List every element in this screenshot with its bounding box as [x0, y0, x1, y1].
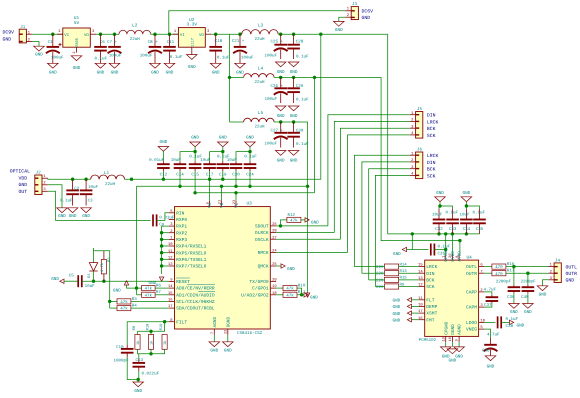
connector J4	[554, 263, 561, 283]
svg-text:GND: GND	[166, 70, 174, 75]
IC U3 CS8416	[175, 207, 271, 329]
svg-text:10uF: 10uF	[85, 284, 96, 289]
capacitor C33	[452, 209, 454, 220]
svg-text:GND: GND	[219, 136, 227, 141]
svg-text:GND: GND	[51, 277, 59, 282]
svg-text:15: 15	[418, 263, 423, 268]
wire VL pin feed	[235, 193, 237, 201]
capacitor C31	[411, 234, 413, 250]
svg-text:22: 22	[223, 330, 228, 334]
wire	[249, 171, 251, 186]
wire	[297, 288, 302, 295]
svg-text:GND: GND	[151, 70, 159, 75]
wire	[162, 252, 169, 254]
resistor R4	[110, 307, 117, 309]
svg-text:GND: GND	[82, 214, 90, 219]
svg-text:GND: GND	[188, 65, 196, 70]
wire to J6 pin4	[375, 175, 409, 286]
wire	[155, 287, 169, 289]
svg-text:0.1uF: 0.1uF	[446, 210, 459, 215]
svg-text:0.1uF: 0.1uF	[217, 56, 230, 61]
svg-text:16: 16	[418, 316, 423, 321]
wire RESET line	[82, 280, 169, 282]
svg-text:22uH: 22uH	[254, 125, 265, 130]
resistor R9	[385, 284, 399, 289]
wire VL rail	[195, 192, 314, 194]
resistor R7	[137, 294, 142, 296]
node	[279, 120, 282, 123]
wire OLRCK	[276, 232, 334, 234]
pin RXP3	[169, 238, 175, 240]
svg-text:1000pF: 1000pF	[114, 358, 130, 363]
svg-text:J5: J5	[417, 107, 423, 112]
wire to J5 pin2	[334, 121, 410, 232]
wire	[194, 171, 196, 193]
svg-text:22uH: 22uH	[130, 37, 141, 42]
wire	[506, 272, 548, 274]
ground	[412, 312, 419, 314]
svg-text:15: 15	[168, 291, 173, 296]
wire tie	[466, 206, 479, 209]
svg-text:3.3V: 3.3V	[187, 23, 198, 28]
ground	[412, 305, 419, 307]
svg-text:J6: J6	[417, 148, 423, 153]
node	[71, 178, 74, 181]
inductor L1	[91, 175, 125, 179]
pin RIN	[169, 212, 175, 214]
pin DGND	[451, 336, 453, 342]
svg-text:U3: U3	[247, 202, 253, 207]
capacitor C34	[465, 209, 467, 220]
svg-text:SDOUT: SDOUT	[255, 224, 269, 230]
svg-text:10: 10	[168, 242, 173, 247]
svg-text:GND: GND	[236, 70, 244, 75]
svg-text:14: 14	[168, 284, 173, 289]
wire	[162, 258, 169, 260]
resistor R18	[150, 331, 152, 334]
svg-text:R19: R19	[159, 323, 164, 331]
svg-text:RXP6/TXSEL1: RXP6/TXSEL1	[176, 257, 207, 263]
wire	[32, 42, 39, 47]
svg-text:GND: GND	[19, 182, 28, 188]
wire OUTR	[484, 272, 492, 274]
wire to J5 pin4	[348, 135, 410, 253]
ground	[435, 197, 446, 202]
regulator U1	[63, 28, 91, 47]
ground	[213, 335, 215, 342]
svg-text:C33: C33	[449, 227, 457, 232]
svg-text:OUTL: OUTL	[566, 265, 578, 271]
wire to J5 pin3	[340, 128, 409, 239]
svg-text:C9: C9	[159, 222, 165, 227]
svg-text:C1: C1	[48, 40, 54, 45]
svg-text:LDOO: LDOO	[466, 320, 477, 326]
IC U4 PCM5102	[425, 260, 479, 336]
wire	[222, 171, 224, 179]
svg-text:GND: GND	[463, 191, 471, 196]
svg-text:GND: GND	[393, 305, 401, 310]
wire to J6 pin2	[362, 162, 410, 273]
pin VNEG	[479, 328, 485, 330]
node	[313, 76, 316, 79]
node	[51, 33, 54, 36]
node	[221, 178, 224, 181]
svg-text:DIN: DIN	[427, 160, 436, 166]
svg-text:FMT: FMT	[426, 317, 435, 323]
svg-text:10: 10	[418, 303, 423, 308]
svg-text:BCK: BCK	[427, 126, 436, 132]
svg-text:OUT: OUT	[19, 189, 28, 195]
inductor L3	[242, 30, 279, 35]
svg-text:RMCK: RMCK	[258, 250, 269, 256]
svg-text:0.1uF: 0.1uF	[170, 55, 183, 60]
svg-text:GND: GND	[58, 214, 66, 219]
resistor R11	[276, 294, 283, 296]
svg-text:CPGND: CPGND	[444, 321, 449, 335]
pin RXP5/RXSEL0	[169, 252, 175, 254]
svg-text:10uF: 10uF	[460, 212, 471, 217]
ground	[191, 47, 193, 54]
svg-text:C39: C39	[507, 295, 515, 300]
pin CPVDD	[445, 254, 447, 260]
svg-text:3: 3	[207, 29, 210, 34]
svg-text:C40: C40	[521, 295, 529, 300]
svg-text:GND: GND	[277, 70, 285, 75]
svg-text:RXP2: RXP2	[176, 230, 187, 236]
svg-text:GND: GND	[113, 289, 121, 294]
svg-text:VO: VO	[199, 33, 204, 38]
svg-text:10: 10	[448, 337, 453, 341]
svg-text:RXP0: RXP0	[176, 217, 187, 223]
svg-text:BCK: BCK	[427, 167, 436, 173]
svg-text:22uH: 22uH	[254, 80, 265, 85]
pin OLRCK	[270, 232, 276, 234]
ground	[57, 208, 68, 213]
svg-text:GND: GND	[311, 221, 319, 226]
svg-text:DC6V: DC6V	[362, 8, 374, 14]
svg-text:100uF: 100uF	[241, 56, 254, 61]
node	[411, 232, 414, 235]
ground	[445, 342, 447, 347]
svg-text:14: 14	[418, 269, 423, 274]
wire 3.3VA branch	[229, 34, 231, 122]
svg-text:QMCK: QMCK	[258, 264, 269, 270]
ground	[537, 286, 548, 291]
svg-text:XSMT: XSMT	[426, 311, 437, 317]
svg-text:DGND: DGND	[226, 316, 231, 327]
wire VD pin feed	[221, 186, 223, 201]
pin RXP1	[169, 225, 175, 227]
svg-text:TX/GPO0: TX/GPO0	[249, 279, 269, 285]
svg-text:0.1uF: 0.1uF	[296, 98, 309, 103]
wire	[32, 33, 62, 35]
ground	[158, 147, 169, 152]
svg-text:VDD: VDD	[19, 176, 28, 182]
pin FLT	[419, 299, 425, 301]
resistor R3	[110, 300, 117, 302]
svg-text:C34: C34	[463, 227, 471, 232]
ground	[218, 142, 229, 147]
svg-text:L5: L5	[258, 111, 264, 116]
wire FILT	[127, 322, 169, 345]
capacitor C15	[194, 161, 196, 164]
node	[130, 178, 133, 181]
svg-text:U4: U4	[467, 256, 473, 261]
svg-text:C11: C11	[167, 40, 175, 45]
inductor L4	[244, 74, 275, 78]
capacitor C36	[484, 329, 490, 338]
wire	[274, 121, 308, 123]
ground	[34, 46, 45, 51]
svg-text:10uF: 10uF	[88, 185, 99, 190]
svg-text:100uF: 100uF	[140, 54, 153, 59]
capacitor C15b	[138, 354, 140, 359]
svg-text:GND: GND	[111, 70, 119, 75]
pin OUTR	[479, 272, 485, 274]
node	[84, 178, 87, 181]
wire	[155, 294, 169, 296]
svg-text:GND: GND	[49, 70, 57, 75]
wire 5V to PCM	[388, 34, 480, 234]
svg-text:OLRCK: OLRCK	[255, 230, 269, 236]
resistor R15	[385, 277, 399, 282]
diode D1	[93, 251, 95, 263]
svg-text:RXP7/TXSEL0: RXP7/TXSEL0	[176, 264, 207, 270]
svg-text:23: 23	[232, 200, 237, 204]
svg-text:GND: GND	[134, 389, 142, 394]
svg-text:GND: GND	[393, 299, 401, 304]
svg-text:C5: C5	[69, 274, 75, 279]
svg-text:R12: R12	[288, 213, 296, 218]
svg-text:DIN: DIN	[426, 271, 435, 277]
pin RXP6/TXSEL1	[169, 258, 175, 260]
ground	[159, 277, 163, 281]
svg-text:7: 7	[210, 332, 215, 334]
wire	[127, 357, 139, 380]
svg-text:GND: GND	[97, 70, 105, 75]
resistor R8	[137, 331, 139, 334]
ground	[245, 142, 256, 147]
svg-text:SCK: SCK	[427, 173, 436, 179]
ground	[412, 319, 419, 321]
wire tie	[210, 152, 223, 162]
resistor R2	[103, 251, 105, 260]
wire	[445, 234, 447, 254]
pin AGND	[458, 336, 460, 342]
svg-text:CAPM: CAPM	[466, 305, 477, 311]
node	[526, 272, 529, 275]
svg-text:RXP4/RXSEL1: RXP4/RXSEL1	[176, 244, 207, 250]
svg-text:FLT: FLT	[426, 297, 435, 303]
svg-text:C7 +: C7 +	[107, 40, 118, 45]
resistor R19	[162, 335, 167, 350]
svg-text:1: 1	[58, 29, 61, 34]
svg-text:L2: L2	[132, 23, 138, 28]
wire	[151, 33, 179, 35]
svg-text:100uF: 100uF	[109, 53, 122, 58]
svg-text:GND: GND	[69, 214, 77, 219]
svg-text:220: 220	[376, 272, 384, 277]
node	[465, 232, 468, 235]
capacitor C9	[152, 214, 154, 226]
wire QMCK to gnd	[276, 265, 281, 267]
svg-text:L3: L3	[258, 23, 264, 28]
svg-text:11: 11	[168, 249, 173, 254]
svg-text:J4: J4	[555, 258, 561, 263]
svg-text:0.1uF: 0.1uF	[296, 142, 309, 147]
svg-text:100uF: 100uF	[265, 97, 278, 102]
svg-text:OUTR: OUTR	[566, 271, 578, 277]
node	[437, 232, 440, 235]
svg-text:GND: GND	[160, 140, 168, 145]
node	[319, 33, 322, 36]
connector J5	[416, 112, 423, 139]
svg-text:13: 13	[168, 262, 173, 267]
svg-text:R8: R8	[132, 325, 137, 330]
svg-text:C38: C38	[506, 324, 514, 329]
capacitor C38	[484, 321, 495, 323]
svg-text:L4: L4	[258, 67, 264, 72]
svg-text:2200pF: 2200pF	[496, 280, 512, 285]
wire	[157, 213, 169, 221]
capacitor C17	[209, 161, 211, 164]
wire	[230, 121, 244, 123]
ground	[302, 294, 304, 296]
pin LRCK	[419, 266, 425, 268]
inductor L2	[119, 30, 151, 34]
ground	[81, 208, 92, 213]
svg-text:J2: J2	[36, 170, 42, 175]
capacitor C35	[479, 209, 481, 220]
wire 3.3V rail to right	[278, 33, 388, 35]
node	[168, 33, 171, 36]
svg-text:GND: GND	[335, 28, 343, 33]
node	[444, 232, 447, 235]
svg-text:C32: C32	[435, 227, 443, 232]
svg-text:220: 220	[376, 265, 384, 270]
svg-text:DEMP: DEMP	[426, 304, 437, 310]
svg-text:GND: GND	[455, 354, 463, 359]
node	[113, 33, 116, 36]
pin OSCLK	[270, 238, 276, 240]
resistor R17	[492, 271, 506, 276]
svg-text:16: 16	[168, 298, 173, 303]
svg-text:7805: 7805	[75, 37, 80, 47]
svg-text:0.1uF: 0.1uF	[506, 317, 519, 322]
wire tie	[180, 152, 195, 162]
node	[108, 300, 111, 303]
ground	[412, 299, 419, 301]
svg-text:C35: C35	[476, 227, 484, 232]
node	[135, 286, 138, 289]
ground	[137, 380, 139, 383]
svg-text:BCK: BCK	[426, 278, 435, 284]
ground	[458, 342, 460, 347]
node	[512, 265, 515, 268]
node	[279, 224, 282, 227]
pin FILT	[169, 321, 175, 323]
pin VL	[235, 201, 237, 207]
ground	[305, 218, 309, 222]
svg-text:20: 20	[272, 278, 277, 283]
svg-text:LRCK: LRCK	[426, 264, 437, 270]
wire	[362, 272, 385, 274]
svg-text:U/AD2/GPO2: U/AD2/GPO2	[241, 292, 269, 298]
wire	[150, 349, 152, 354]
svg-text:C21 +: C21 +	[232, 39, 245, 44]
svg-text:GND: GND	[3, 37, 12, 43]
wire OUTL	[484, 266, 492, 268]
node	[99, 33, 102, 36]
svg-text:R10: R10	[298, 283, 306, 288]
svg-text:C3: C3	[88, 199, 94, 204]
capacitor C32	[438, 209, 440, 220]
svg-text:LRCK: LRCK	[427, 119, 439, 125]
node	[228, 76, 231, 79]
wire	[375, 286, 384, 288]
svg-text:LRCK: LRCK	[427, 153, 439, 159]
wire	[162, 238, 169, 240]
svg-text:VO: VO	[84, 33, 89, 38]
node	[153, 33, 156, 36]
pin CPGND	[445, 336, 447, 342]
wire	[307, 122, 309, 293]
wire 3.3VA to PCM	[381, 77, 460, 254]
regulator U2	[178, 28, 205, 48]
ground	[190, 142, 201, 147]
pin RXP2	[169, 232, 175, 234]
svg-text:1: 1	[174, 29, 177, 34]
inductor L5	[244, 118, 275, 122]
connector J6	[416, 152, 423, 179]
pin DIN	[419, 272, 425, 274]
wire	[162, 245, 169, 247]
wire	[138, 349, 165, 354]
svg-text:J1: J1	[20, 25, 26, 30]
svg-text:FILT: FILT	[176, 319, 187, 325]
wire to J6 pin1	[354, 155, 409, 266]
node	[137, 378, 140, 381]
wire	[451, 234, 453, 254]
svg-text:2: 2	[72, 51, 77, 53]
svg-text:100uF: 100uF	[265, 142, 278, 147]
svg-text:OUTL: OUTL	[466, 264, 477, 270]
pin CAPM	[479, 306, 485, 308]
wire	[162, 171, 164, 179]
wire VA pin feed	[209, 171, 211, 201]
resistor R14	[385, 264, 399, 269]
capacitor C12	[162, 161, 164, 164]
node	[208, 178, 211, 181]
pin RESET	[169, 281, 175, 283]
pin XSMT	[419, 312, 425, 314]
svg-text:RXP1: RXP1	[176, 224, 187, 230]
node	[451, 232, 454, 235]
svg-text:C/GPO1: C/GPO1	[252, 286, 269, 292]
svg-text:SCL/CCLK/96KHZ: SCL/CCLK/96KHZ	[176, 299, 215, 305]
node	[292, 120, 295, 123]
wire to J3	[169, 11, 346, 34]
svg-text:PCM5102: PCM5102	[419, 338, 437, 343]
svg-text:100uF: 100uF	[51, 56, 64, 61]
svg-text:13: 13	[418, 276, 423, 281]
wire	[543, 280, 549, 286]
pin VA	[209, 201, 211, 207]
wire	[162, 232, 169, 234]
wire	[211, 33, 242, 35]
pin VD	[221, 201, 223, 207]
svg-text:AGND: AGND	[458, 324, 463, 335]
